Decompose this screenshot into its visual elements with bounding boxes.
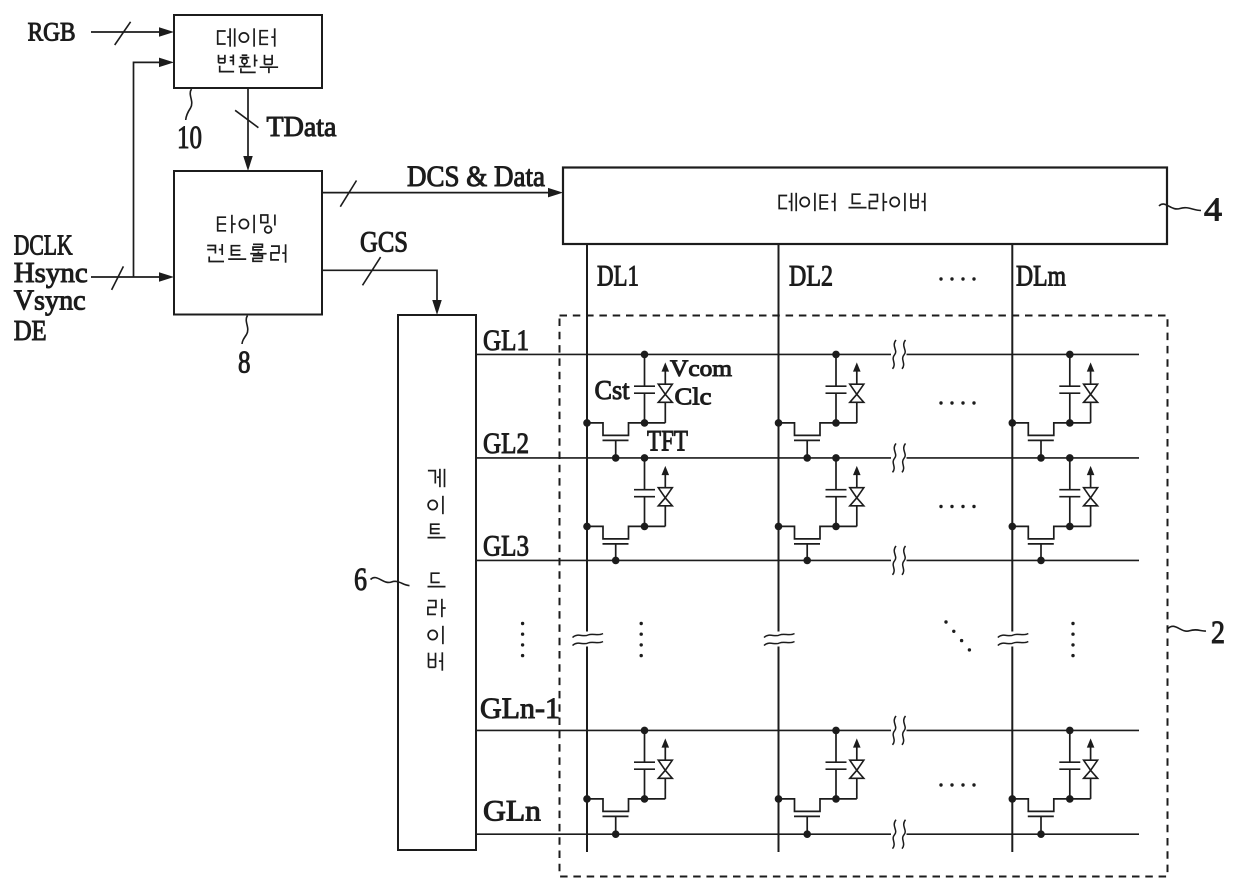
svg-text:RGB: RGB <box>28 18 76 47</box>
svg-text:2: 2 <box>1211 615 1225 651</box>
svg-text:GLn: GLn <box>483 795 541 828</box>
svg-text:8: 8 <box>238 344 251 380</box>
svg-text:GL2: GL2 <box>483 427 529 460</box>
svg-text:10: 10 <box>177 120 202 156</box>
svg-text:4: 4 <box>1204 192 1222 229</box>
svg-text:DL2: DL2 <box>789 260 833 293</box>
svg-text:DL1: DL1 <box>597 260 639 293</box>
svg-text:DE: DE <box>14 315 47 347</box>
svg-text:GCS: GCS <box>360 226 408 259</box>
svg-text:Vcom: Vcom <box>670 356 732 381</box>
svg-text:DLm: DLm <box>1016 260 1066 293</box>
svg-text:DCS & Data: DCS & Data <box>407 160 545 193</box>
svg-text:Clc: Clc <box>675 385 712 411</box>
svg-text:TFT: TFT <box>647 425 688 458</box>
svg-text:GL1: GL1 <box>483 324 529 357</box>
svg-text:Cst: Cst <box>595 375 630 405</box>
svg-text:GLn-1: GLn-1 <box>480 692 560 725</box>
svg-text:Vsync: Vsync <box>14 285 86 317</box>
svg-text:6: 6 <box>354 562 367 598</box>
svg-text:TData: TData <box>267 112 338 143</box>
svg-text:GL3: GL3 <box>483 530 529 563</box>
